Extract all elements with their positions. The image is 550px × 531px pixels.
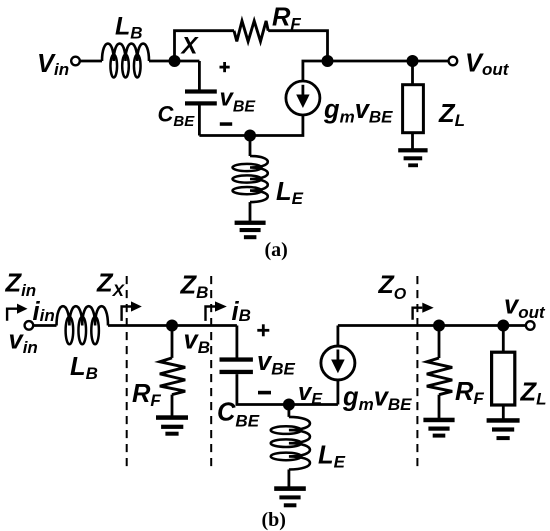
node vB dot — [166, 320, 178, 332]
inductor LB (a) humps — [102, 44, 149, 61]
dashed boundary line ZO — [416, 276, 418, 466]
inductor LE (b) humps — [289, 417, 310, 470]
capacitor CBE (a) plates — [185, 89, 217, 105]
wire collector node to current source — [303, 61, 328, 81]
terminal vout (open circle) — [526, 321, 535, 330]
wire capacitor branch down — [235, 326, 238, 358]
ground under LE (a) — [235, 221, 266, 240]
svg-text:(b): (b) — [262, 509, 286, 531]
node output dot (a) — [407, 55, 419, 67]
plus sign (a) — [220, 62, 230, 72]
inductor LE (a) loops — [233, 164, 262, 171]
dashed boundary line ZX — [126, 276, 128, 466]
wire RF right to ground — [438, 395, 441, 418]
current source gmvBE (a) — [286, 81, 320, 115]
wire ZL (b) to ground — [502, 405, 505, 419]
inductor LB (b) humps — [57, 306, 109, 325]
ground under RF (b right) — [423, 418, 454, 438]
dashed boundary line ZB — [210, 276, 212, 466]
minus sign (a) — [220, 122, 232, 126]
wire LB to node X — [149, 60, 199, 63]
wire node X up to RF — [175, 31, 235, 61]
ground under ZL (b) — [487, 418, 520, 440]
wire node to ZL (b) — [502, 326, 505, 353]
wire Vin to LB — [81, 60, 103, 63]
svg-text:(a): (a) — [265, 239, 288, 261]
wire current source up to output wire — [336, 326, 339, 347]
ground under ZL (a) — [398, 148, 427, 167]
output wire (b) — [338, 324, 526, 327]
wire LE (b) to ground — [287, 470, 290, 487]
arrow ZO — [413, 303, 434, 320]
wire ZL to ground — [411, 133, 414, 149]
wire node X to capacitor CBE — [198, 61, 201, 90]
ground under RF (b left) — [156, 415, 188, 435]
wire vin to LB — [34, 324, 57, 327]
resistor RF (a) zigzag — [234, 21, 268, 42]
wire LB to capacitor branch — [108, 324, 237, 327]
node vE dot — [283, 399, 295, 411]
terminal Vout (open circle) — [449, 57, 458, 66]
inductor LE (b) loops — [271, 426, 302, 434]
inductor LB (a) loops — [110, 55, 117, 78]
resistor RF (b left) zigzag — [160, 358, 185, 395]
current source gmvBE (b) — [321, 346, 355, 380]
terminal Vin (open circle) — [71, 57, 80, 66]
wire CBE to vE wire — [237, 374, 338, 404]
wire RF to right node — [268, 31, 327, 61]
capacitor CBE (b) plates — [220, 357, 253, 374]
wire LE to ground — [249, 202, 252, 221]
wire vB node to RF — [171, 326, 174, 358]
wire current source to emitter wire — [199, 115, 303, 136]
plus sign (b) — [257, 324, 269, 336]
ground under LE (b) — [274, 486, 306, 507]
arrow ZB — [206, 301, 227, 321]
terminal vin (open circle) — [25, 321, 34, 330]
node emitter dot (a) — [244, 130, 256, 142]
wire RF to ground — [171, 395, 174, 416]
svg-text:X: X — [180, 33, 200, 60]
node ZL dot (b) — [497, 320, 509, 332]
node collector dot — [322, 55, 334, 67]
node X junction dot — [169, 55, 181, 67]
inductor LE (a) humps — [250, 156, 268, 202]
arrow Zin — [7, 304, 27, 321]
wire node to RF right — [438, 326, 441, 359]
wire emitter node to LE — [249, 136, 252, 157]
inductor LB (b) loops — [66, 317, 74, 345]
node RF right dot — [433, 320, 445, 332]
minus sign (b) — [258, 391, 271, 395]
wire node to ZL — [411, 61, 414, 85]
wire collector node to ZL and Vout — [328, 60, 449, 63]
impedance ZL (b) rectangle — [492, 352, 515, 405]
wire current source down to vE wire — [336, 380, 339, 405]
impedance ZL (a) rectangle — [403, 85, 424, 133]
wire vE node to LE (b) — [287, 405, 290, 417]
wire CBE to emitter wire — [198, 106, 201, 136]
arrow ZX — [122, 301, 142, 321]
resistor RF (b right) zigzag — [427, 358, 452, 395]
